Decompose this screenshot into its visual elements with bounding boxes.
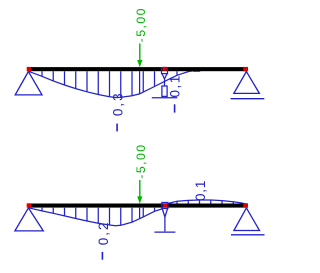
svg-text:0,1: 0,1 [167, 74, 182, 97]
spring support C1 (top mid): cone [162, 74, 167, 79]
minus stroke of label "-0,2" [102, 252, 104, 260]
roller support B2 base line [231, 234, 265, 236]
roller support B1 base line [231, 98, 265, 100]
minus stroke of label "-0,1" [174, 104, 176, 112]
spring support C1: spring box [162, 86, 167, 96]
load arrow 2 stem (bottom) [139, 180, 141, 197]
beam member 1 (top) [28, 67, 247, 71]
roller support B2 (bottom right): triangle [234, 208, 260, 231]
svg-text:0,2: 0,2 [96, 221, 111, 246]
deflection curve beam 1 (top), spans A+B [29, 70, 201, 97]
minus stroke of label "-0,3" [116, 124, 118, 132]
rigid support C2 (bottom mid): cone [162, 209, 167, 218]
rigid support C2: base line [154, 231, 175, 233]
roller support B1 (top right): triangle [234, 72, 260, 94]
hatch lines bottom diagram span A [42, 208, 155, 226]
node dot A2 (bottom left) [27, 203, 31, 207]
blue nub of zero-line right of crossing, top beam [193, 70, 200, 72]
load arrow 2 head [137, 196, 142, 203]
svg-text:-5,00: -5,00 [134, 144, 148, 179]
deflection hump curve beam 2 (bottom) span B [165, 200, 247, 206]
pin support A1 (top left) [15, 72, 42, 95]
hatch lines bottom diagram span B (above beam) [177, 200, 233, 204]
load arrow 1 stem (top) [139, 44, 141, 61]
hatch lines top diagram span B [177, 71, 188, 75]
node dot B1 (top right) [243, 67, 248, 71]
spring support C1: stem [164, 79, 166, 86]
hatch lines top diagram span A [42, 71, 155, 97]
deflection curve beam 2 (bottom) span A [29, 208, 164, 226]
node dot C1 (top mid) [163, 67, 167, 71]
svg-text:0,3: 0,3 [110, 91, 125, 116]
spring support C1: base line [152, 97, 177, 99]
beam member 2 (bottom) [28, 204, 247, 208]
node dot C2 (bottom mid) [163, 203, 167, 207]
node square C2 (bottom mid) [162, 203, 168, 209]
load arrow 1 head [137, 60, 142, 67]
pin support A2 (bottom left) [15, 208, 43, 231]
svg-text:-5,00: -5,00 [134, 7, 148, 42]
rigid support C2: column stem [164, 217, 166, 231]
node dot B2 (bottom right) [243, 203, 248, 207]
svg-text:0,1: 0,1 [193, 180, 208, 201]
node square C1 (top mid) [162, 68, 168, 74]
node dot A1 (top left) [27, 67, 31, 71]
